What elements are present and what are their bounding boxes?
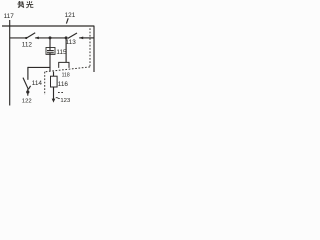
svg-text:118: 118 — [62, 72, 70, 78]
svg-text:112: 112 — [22, 42, 33, 49]
svg-text:115: 115 — [56, 49, 67, 56]
svg-text:114: 114 — [32, 80, 43, 87]
svg-text:113: 113 — [66, 39, 77, 46]
svg-text:116: 116 — [58, 81, 69, 88]
svg-text:121: 121 — [65, 12, 76, 19]
svg-text:122: 122 — [22, 98, 32, 104]
svg-text:123: 123 — [60, 98, 71, 104]
svg-text:117: 117 — [4, 13, 15, 20]
